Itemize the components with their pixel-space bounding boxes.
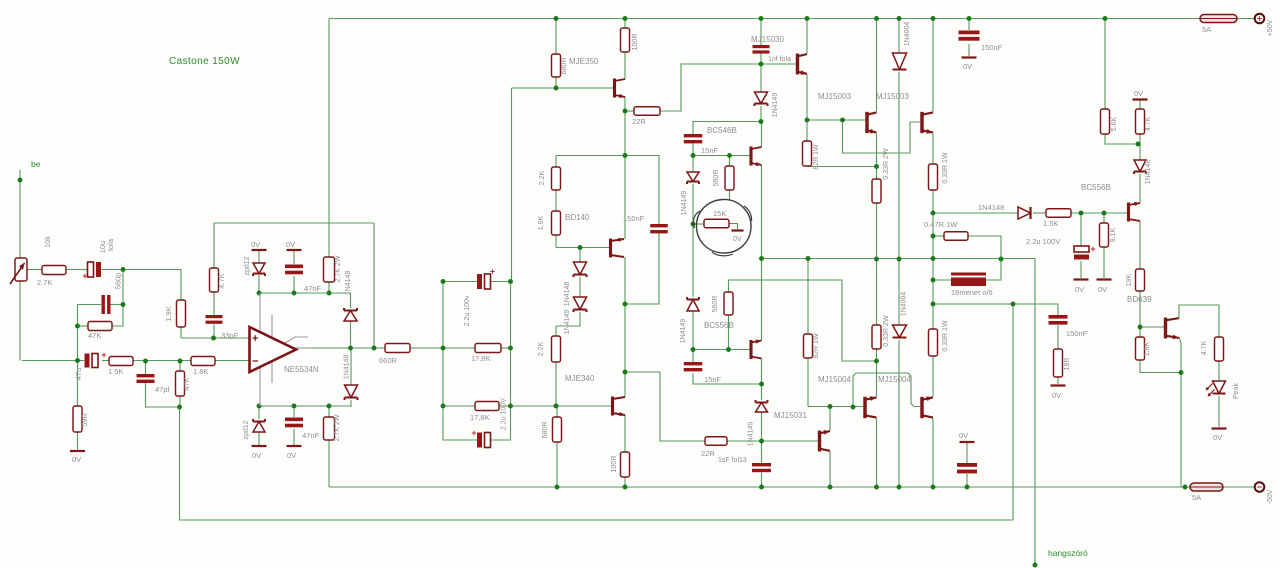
svg-text:660R: 660R — [379, 356, 398, 365]
ground 0V below zpd12-2 — [252, 445, 267, 447]
svg-text:1.5K: 1.5K — [1043, 219, 1058, 228]
resistor 5.6K — [1101, 109, 1110, 134]
svg-text:1.9K: 1.9K — [164, 306, 173, 321]
transistor MJ15004-1 — [863, 397, 866, 418]
svg-text:2.2u 100V: 2.2u 100V — [501, 398, 508, 430]
svg-text:1N4148: 1N4148 — [978, 203, 1004, 212]
wire BC546B collector — [761, 122, 763, 148]
svg-text:-50V: -50V — [1267, 489, 1274, 504]
resistor 82R 1W lower — [804, 334, 813, 358]
svg-text:560p: 560p — [114, 273, 123, 290]
svg-text:1N4149: 1N4149 — [681, 191, 688, 216]
wire zpd12 stub bottom — [258, 406, 260, 419]
svg-text:9.1K: 9.1K — [1110, 227, 1117, 242]
resistor 4.7K bias — [1136, 109, 1145, 134]
wire 15nF top hook — [693, 122, 762, 135]
wire 2.7K 2W-2 top lead — [328, 406, 330, 417]
junction (77.5,326) — [75, 324, 80, 329]
junction (1013,304) — [1011, 302, 1016, 307]
resistor 660R — [385, 344, 410, 353]
resistor 2.7K 2W bottom — [324, 417, 335, 440]
svg-text:BD140: BD140 — [565, 213, 590, 222]
wire 1N4149 sense column — [692, 156, 694, 173]
wire 47nF stub top — [293, 251, 295, 264]
junction (556,406) — [554, 404, 559, 409]
junction (842.5,120) — [840, 118, 845, 123]
wire MJ15030 collector — [806, 19, 808, 54]
resistor 100R top — [621, 28, 630, 52]
ground 0V below 18R — [1051, 384, 1066, 386]
junction (761,64) — [759, 62, 764, 67]
capacitor 560p — [102, 295, 111, 314]
capacitor 15nF-2 — [684, 362, 703, 371]
wire 2.2u-2 leads — [443, 439, 477, 441]
svg-text:33pF: 33pF — [221, 331, 239, 340]
svg-text:1N4149: 1N4149 — [564, 310, 571, 335]
svg-text:tola: tola — [106, 238, 115, 251]
capacitor 150nF VAS — [650, 224, 668, 233]
zener 1N4149-5 — [756, 403, 768, 413]
junction (294,406) — [292, 404, 297, 409]
resistor 1.9K input — [177, 300, 186, 327]
resistor 1.9K VAS — [552, 211, 561, 235]
trimmer 15K — [704, 219, 729, 228]
junction (830,487) — [828, 485, 833, 490]
wire 5.6K column — [1104, 19, 1106, 110]
diode 1N4148 protection — [1018, 207, 1031, 219]
trimmer circle 15K — [696, 199, 751, 253]
svg-text:5A: 5A — [1192, 493, 1201, 502]
transistor MJE350 — [613, 79, 616, 98]
svg-text:1N4148: 1N4148 — [564, 282, 571, 307]
junction (145.5,361) — [143, 359, 148, 364]
svg-text:be: be — [31, 159, 41, 169]
svg-text:150nF: 150nF — [1066, 329, 1088, 338]
wire 2.2u/17.8K right rail — [502, 282, 511, 441]
junction (1105,18.5) — [1103, 16, 1108, 21]
svg-text:MJE340: MJE340 — [565, 374, 595, 383]
transistor MJ15004-2 — [920, 397, 923, 418]
diode 1N4148 bias — [1134, 160, 1146, 172]
svg-text:18R: 18R — [1064, 358, 1071, 371]
wire zpd12 stub top — [258, 251, 260, 264]
wire -50V bottom bus — [329, 486, 1190, 488]
junction (761.5,258.5) — [759, 256, 764, 261]
junction (693,224) — [691, 222, 696, 227]
wire 47pF branch — [145, 361, 147, 374]
wire 2.2K-2 to MJE340 base — [555, 362, 557, 406]
junction (580,247.5) — [578, 245, 583, 250]
svg-text:1.5K: 1.5K — [108, 367, 123, 376]
wire 47K-2 branch — [179, 361, 181, 371]
wire 1.9K/2.2K VAS column — [555, 156, 557, 168]
wire MJE340 emitter to 100R — [624, 415, 626, 452]
resistor 2.7K input — [42, 266, 66, 275]
wire protection rail 1N4148/1.5K — [933, 212, 1018, 214]
junction (350.5,348) — [348, 346, 353, 351]
ground 0V below 9.1K — [1097, 278, 1112, 280]
diode 1N4004 bottom — [893, 325, 907, 338]
svg-text:2.7K: 2.7K — [37, 278, 52, 287]
wire MJ15003-1 collector — [876, 19, 878, 112]
junction (329,406) — [327, 404, 332, 409]
svg-text:4.7K: 4.7K — [1201, 340, 1208, 355]
svg-text:MJ15004: MJ15004 — [878, 375, 911, 384]
wire MJ15003 base rail — [807, 119, 865, 121]
wire BD639 collector to 4.7K — [1179, 305, 1219, 337]
svg-text:0V: 0V — [1098, 285, 1107, 294]
wire clamp diode bottom — [350, 348, 352, 385]
svg-text:2.2u 100V: 2.2u 100V — [1026, 237, 1060, 246]
wire MJ15004-1 collector to -50V bus — [876, 419, 878, 488]
svg-text:82R 1W: 82R 1W — [813, 333, 820, 359]
resistor 560R-2 — [724, 292, 733, 315]
svg-text:1N4004: 1N4004 — [904, 22, 911, 47]
junction (933,258.5) — [931, 256, 936, 261]
svg-text:0V: 0V — [1075, 285, 1084, 294]
svg-text:MJ15003: MJ15003 — [876, 92, 909, 101]
junction (728.5,349.5) — [726, 347, 731, 352]
transistor BC556B protection — [1127, 203, 1130, 222]
wire 150nF rail cap stubs — [968, 19, 970, 31]
transistor MJ15003-1 — [865, 112, 868, 133]
wire 2.7K 2W to -50V bus riser — [328, 440, 330, 487]
wire - input rail — [22, 360, 78, 362]
svg-text:MJ15004: MJ15004 — [818, 375, 851, 384]
fuse 5A +50V — [1200, 15, 1237, 23]
junction (1138,144) — [1136, 142, 1141, 147]
junction (510.5,281.5) — [508, 279, 513, 284]
junction (123,269.5) — [121, 267, 126, 272]
junction (1181,372.5) — [1179, 370, 1184, 375]
resistor 1.5K — [109, 357, 133, 366]
wire MJE350 emitter / 22R / BD140 emitter column — [624, 97, 626, 111]
wire op-amp output — [309, 347, 443, 349]
wire 17.8K-2 leads / MJE340 base rail — [443, 405, 475, 407]
resistor 82R 1W upper — [803, 141, 812, 166]
svg-text:Peak: Peak — [1233, 383, 1240, 399]
wire 19K to BD639 base node — [1139, 291, 1141, 337]
junction (853,407) — [851, 405, 856, 410]
svg-text:22R: 22R — [701, 449, 715, 458]
wire 4.7K to LED — [1218, 361, 1220, 381]
junction (933,236) — [931, 234, 936, 239]
svg-text:5A: 5A — [1202, 25, 1211, 34]
svg-text:680R: 680R — [542, 422, 549, 439]
svg-text:1N4149: 1N4149 — [772, 93, 779, 118]
svg-text:0.33R 2W: 0.33R 2W — [883, 148, 890, 180]
resistor 1.9K driver — [1136, 337, 1145, 360]
junction (329,293) — [327, 291, 332, 296]
wire 82R 1W stubs — [806, 120, 808, 141]
junction (876.5,361) — [874, 359, 879, 364]
svg-text:NE5534N: NE5534N — [284, 365, 319, 374]
junction (556,18.5) — [554, 16, 559, 21]
wire 47nF stub bottom — [293, 406, 295, 417]
svg-text:0V: 0V — [252, 451, 261, 460]
resistor 0.33R-2 — [929, 164, 938, 190]
capacitor 0V bus cap — [957, 463, 977, 473]
resistor 4.7K LED — [1215, 337, 1224, 361]
wire MJ15030 emitter to base rail — [806, 75, 808, 121]
wire 15nF-2 hook — [692, 350, 694, 363]
wire BC546B base rail — [693, 155, 750, 157]
wire 33pF junction to + input — [213, 337, 215, 339]
wire MJ15003-2 emitter to 0.33R — [932, 134, 934, 165]
svg-text:100R: 100R — [611, 456, 618, 473]
svg-text:BC556B: BC556B — [704, 321, 734, 330]
svg-text:1nf fola: 1nf fola — [768, 56, 791, 63]
capacitor 2.2u 100V protection — [1074, 246, 1089, 252]
junction (374,348) — [372, 346, 377, 351]
wire + input rail — [181, 337, 250, 339]
svg-text:47pf: 47pf — [155, 385, 171, 394]
svg-text:0V: 0V — [963, 62, 972, 71]
wire Zobel rail — [933, 304, 1058, 315]
svg-text:1.9K: 1.9K — [538, 215, 545, 230]
terminal -50V — [1255, 482, 1265, 492]
wire 15K wiper to 0V — [729, 224, 738, 230]
transistor MJ15003-2 — [920, 112, 923, 133]
wire 680R-2 column — [556, 406, 558, 417]
junction (557,487) — [555, 485, 560, 490]
junction (123,304.5) — [121, 302, 126, 307]
zener zpd12 top — [253, 263, 265, 274]
wire 1nF fol cap to top bus — [760, 19, 762, 46]
svg-text:4.7K: 4.7K — [217, 273, 226, 288]
zener zpd12 bottom — [253, 422, 265, 433]
capacitor 47u — [85, 354, 90, 368]
junction (693,155.5) — [691, 153, 696, 158]
wire 680R/MJE350 base net — [555, 19, 557, 55]
resistor 9.1K — [1100, 223, 1109, 247]
junction (1001,259) — [999, 257, 1004, 262]
junction (969,18.5) — [967, 16, 972, 21]
svg-text:150nF: 150nF — [981, 43, 1003, 52]
diode 1N4004 top — [893, 53, 907, 70]
svg-text:0V: 0V — [1052, 391, 1061, 400]
svg-text:100R: 100R — [632, 34, 639, 51]
svg-text:0.33R 2W: 0.33R 2W — [883, 315, 890, 347]
wire 47K column to - rail — [77, 326, 79, 361]
ground 0V below 2.2u — [1074, 278, 1089, 280]
svg-text:1N4148: 1N4148 — [344, 355, 351, 380]
svg-text:0.33R 1W: 0.33R 1W — [942, 152, 949, 184]
svg-text:0V: 0V — [959, 431, 968, 440]
potentiometer 10k input — [15, 258, 27, 281]
svg-text:1.9K: 1.9K — [1144, 341, 1151, 356]
wire 47K row — [78, 325, 89, 327]
svg-text:5.6K: 5.6K — [1111, 116, 1118, 131]
svg-text:10k: 10k — [43, 236, 52, 248]
resistor 100R-2 — [621, 452, 630, 477]
transistor BC546B — [749, 147, 752, 166]
wire 59R to ground — [77, 361, 79, 407]
zener 1N4149 sense-2 — [687, 300, 699, 312]
wire input coupling to 1.9K — [123, 270, 181, 301]
junction (443,281.5) — [441, 279, 446, 284]
fuse 5A -50V — [1190, 483, 1223, 491]
ground 0V wiper — [732, 229, 744, 231]
junction (876.5,259) — [874, 257, 879, 262]
resistor 4.7K input — [210, 268, 219, 292]
wire BD140 base — [556, 247, 609, 249]
zener 1N4149 sense-1 — [687, 172, 699, 182]
resistor 47K feedback — [176, 371, 185, 396]
svg-text:0V: 0V — [1134, 89, 1143, 98]
svg-text:BD639: BD639 — [1127, 295, 1152, 304]
junction (899,18.5) — [897, 16, 902, 21]
wire BC556B collector to 19K — [1139, 221, 1141, 269]
svg-text:680R: 680R — [561, 58, 568, 75]
capacitor 47pF — [137, 374, 155, 383]
wire 0.33R-2 to protection rail — [932, 190, 934, 304]
resistor 680R-2 — [553, 417, 562, 442]
diode 1N4148 chain-1 — [574, 262, 587, 275]
wire 560R-1 stubs — [729, 156, 731, 167]
svg-text:47nF: 47nF — [304, 284, 322, 293]
wire MJ15031 emitter — [829, 407, 831, 431]
wire BD140 collector to MJE340 collector — [624, 257, 626, 397]
inductor 16menet — [951, 273, 986, 276]
svg-text:zpd12: zpd12 — [244, 256, 251, 275]
wire 1N4004 column — [898, 19, 900, 54]
capacitor 150nF rail — [959, 31, 980, 41]
junction (933,304) — [931, 302, 936, 307]
wire +50V top bus — [329, 18, 1200, 20]
resistor 18R — [1054, 349, 1063, 377]
svg-text:17,8K: 17,8K — [470, 413, 490, 422]
wire 9.1K stub — [1103, 213, 1105, 223]
svg-text:0.47R 1W: 0.47R 1W — [924, 220, 958, 229]
svg-text:2.2K: 2.2K — [539, 170, 546, 185]
wire diode chain column — [579, 248, 581, 263]
wire MJ15003-2 base jog — [843, 120, 921, 153]
junction (1081,213) — [1079, 211, 1084, 216]
svg-text:16menet o/6: 16menet o/6 — [951, 288, 993, 297]
wire be stub — [19, 170, 21, 180]
resistor 17.8K upper — [475, 344, 501, 353]
transistor MJ15030 — [796, 54, 799, 75]
junction (933,280) — [931, 278, 936, 283]
svg-text:MJE350: MJE350 — [569, 57, 599, 66]
resistor 0.33R-3 — [872, 325, 881, 349]
svg-text:47K: 47K — [88, 331, 101, 340]
wire feedback left column — [179, 407, 182, 520]
svg-text:BC546B: BC546B — [707, 126, 737, 135]
wire speaker column — [1034, 259, 1036, 566]
wire 4.7K input stubs — [213, 223, 215, 268]
junction (625,304) — [623, 302, 628, 307]
wire Zobel 150nF to 18R — [1057, 325, 1059, 349]
junction (933,487) — [931, 485, 936, 490]
capacitor 2.2u 100v upper — [477, 274, 482, 289]
svg-text:0.33R 1W: 0.33R 1W — [942, 320, 949, 352]
diode 1N4148 clamp bottom — [345, 385, 358, 398]
resistor 0.33R-1 — [872, 179, 881, 203]
junction (1104,213) — [1102, 211, 1107, 216]
svg-text:2.7K 2W: 2.7K 2W — [334, 414, 341, 441]
wire input pot column — [19, 180, 21, 258]
wire clamp diode top — [350, 293, 352, 308]
junction (510.5,406) — [508, 404, 513, 409]
wire feedback top rail — [214, 222, 374, 224]
resistor 22R — [634, 107, 660, 116]
junction (761.5,487) — [759, 485, 764, 490]
resistor 2.2K lower — [552, 336, 561, 362]
junction (213.5,338) — [211, 336, 216, 341]
wire BD639 emitter riser — [1179, 337, 1181, 373]
junction (899,259) — [897, 257, 902, 262]
svg-text:47u: 47u — [74, 368, 83, 381]
junction (510.5,348) — [508, 346, 513, 351]
svg-text:82R 1W: 82R 1W — [813, 144, 820, 170]
svg-text:2.2u 100v: 2.2u 100v — [464, 295, 471, 326]
svg-text:47K: 47K — [182, 377, 191, 390]
capacitor 47nF bottom — [285, 418, 303, 428]
junction (876.5,166.5) — [874, 164, 879, 169]
wire 560R-2 stub — [728, 315, 730, 350]
resistor 22R-2 — [705, 437, 727, 446]
resistor 560R-1 — [725, 166, 734, 190]
junction (179.5,407) — [177, 405, 182, 410]
svg-text:1N4149: 1N4149 — [680, 319, 687, 344]
svg-text:hangszóró: hangszóró — [1048, 548, 1088, 558]
junction (556,88) — [554, 86, 559, 91]
wire 1.9K to emitter junction — [1140, 360, 1181, 373]
junction (807,18.5) — [805, 16, 810, 21]
capacitor 47nF top — [285, 265, 303, 275]
junction (761.5,384) — [759, 382, 764, 387]
resistor 19K — [1136, 269, 1145, 291]
resistor 59R — [73, 406, 82, 432]
wire 4.7K stub from 0V — [1139, 101, 1141, 110]
wire 1nF-2 cap column — [761, 441, 763, 463]
wire MJ15003-2 collector — [932, 19, 934, 112]
zener 1N4149 top — [755, 92, 768, 104]
svg-text:MJ15030: MJ15030 — [751, 35, 784, 44]
svg-text:MJ15031: MJ15031 — [774, 411, 807, 420]
wire 0.33R to output rail — [876, 203, 878, 259]
transistor MJE340 — [611, 397, 614, 416]
junction (876.5,18.5) — [874, 16, 879, 21]
junction (1035,565) — [1033, 563, 1038, 568]
svg-text:Castone 150W: Castone 150W — [169, 56, 240, 67]
svg-text:15nF: 15nF — [704, 375, 722, 384]
junction (933,213) — [931, 211, 936, 216]
junction (259,406) — [257, 404, 262, 409]
junction (967,487) — [965, 485, 970, 490]
junction (625,18.5) — [623, 16, 628, 21]
wire MJ15004-1 emitter stub — [876, 361, 878, 397]
svg-text:17,8K: 17,8K — [471, 354, 491, 363]
transistor BC556B-2 — [749, 340, 752, 359]
wire input series row — [27, 269, 42, 271]
wire 22R to MJ15030 base — [660, 64, 796, 111]
svg-text:+50V: +50V — [1267, 19, 1274, 36]
wire BC556B-2 base rail — [693, 349, 750, 351]
resistor 2.2K upper — [552, 167, 561, 190]
ground 0V below LED — [1212, 427, 1227, 429]
junction (180,361) — [178, 359, 183, 364]
wire inductor leads — [933, 279, 951, 281]
wire 0.47R 1W leads — [933, 235, 944, 237]
resistor 1.5K protection — [1046, 209, 1071, 218]
wire 100R to MJE350 collector — [624, 19, 626, 29]
terminal +50V — [1255, 14, 1265, 24]
svg-text:15nF: 15nF — [701, 146, 719, 155]
wire 0.33R-4 column to MJ15004-2 — [932, 304, 934, 329]
